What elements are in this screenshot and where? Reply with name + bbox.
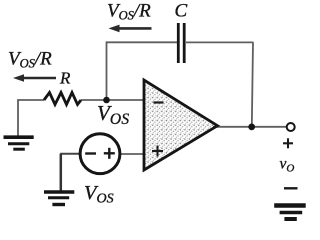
svg-text:R: R	[59, 69, 71, 88]
svg-text:VOS: VOS	[97, 101, 130, 128]
svg-text:VOS/R: VOS/R	[8, 49, 52, 71]
svg-text:C: C	[175, 1, 188, 22]
svg-text:VOS/R: VOS/R	[107, 1, 151, 23]
svg-text:VOS: VOS	[84, 182, 114, 207]
svg-text:vO: vO	[280, 156, 295, 175]
